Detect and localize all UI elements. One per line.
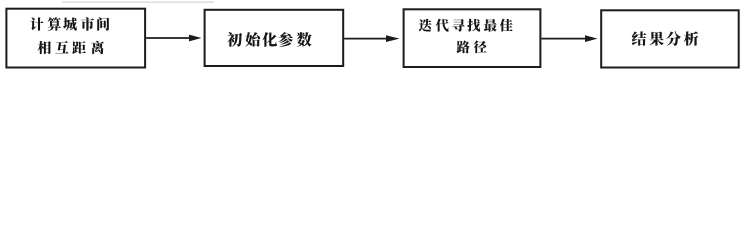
box 3 text line 1: 迭代寻找最佳 (419, 19, 513, 32)
box 3 text line 2: 路径 (457, 41, 487, 54)
process box 2 (205, 10, 344, 66)
process box 3 (404, 9, 541, 67)
box 1 text line 2: 相互距离 (38, 41, 104, 54)
process box 1 (6, 9, 145, 68)
faint scan streak (62, 2, 214, 3)
box 1 text line 1: 计算城市间 (30, 17, 109, 31)
arrow 1 (146, 35, 201, 42)
process box 4 (601, 10, 739, 67)
arrow 3 (541, 35, 597, 42)
box 4 text: 结果分析 (632, 31, 699, 46)
arrow 2 (344, 35, 399, 42)
box 2 text: 初始化参数 (227, 32, 312, 47)
